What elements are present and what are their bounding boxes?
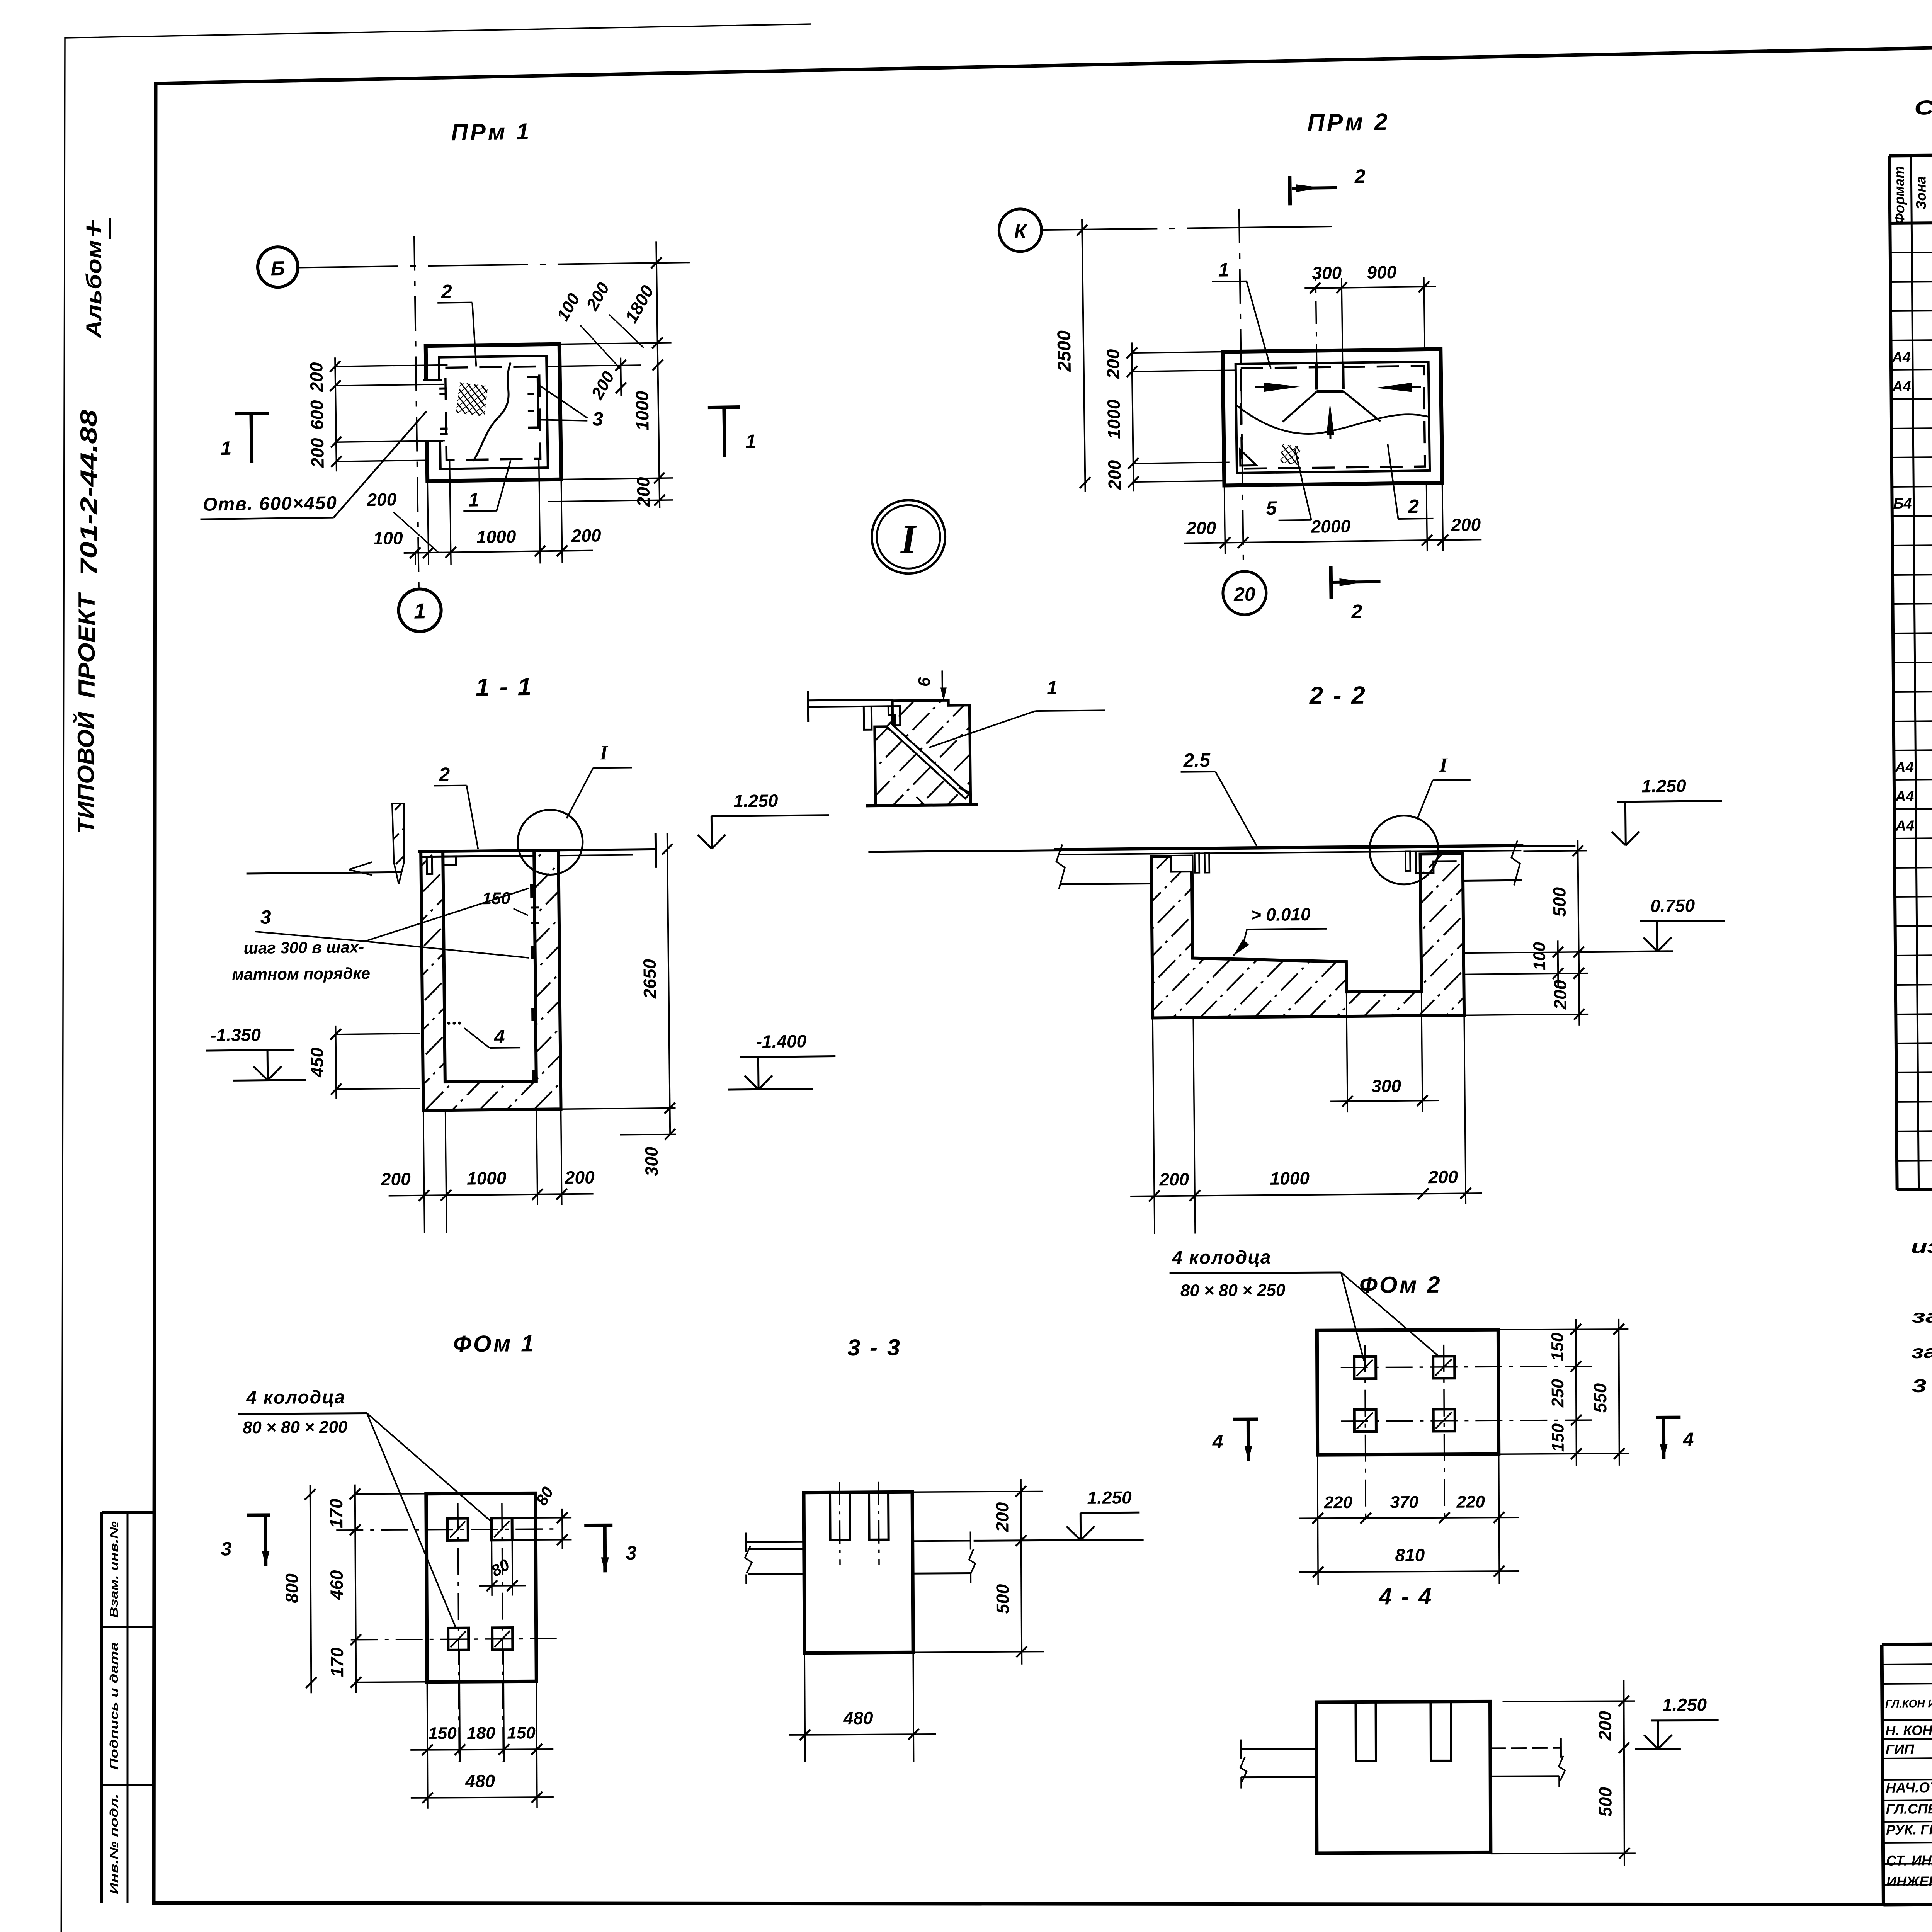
svg-text:170: 170 [326, 1498, 346, 1528]
detail I [806, 498, 1106, 806]
axis Б [257, 247, 298, 287]
svg-text:ГЛ.КОН ИН-ТА: ГЛ.КОН ИН-ТА [1885, 1697, 1932, 1710]
svg-text:1: 1 [221, 437, 232, 459]
specification table [1889, 91, 1932, 1190]
svg-text:ГЛ.СПЕЦ.: ГЛ.СПЕЦ. [1886, 1801, 1932, 1817]
dim 6 [941, 670, 943, 697]
svg-text:-1.400: -1.400 [756, 1031, 806, 1051]
svg-text:А4: А4 [1895, 818, 1914, 834]
svg-text:ПРм 1: ПРм 1 [451, 119, 531, 146]
bottom dim 480 [789, 1734, 936, 1735]
svg-text:200: 200 [992, 1502, 1012, 1532]
svg-text:1.250: 1.250 [1087, 1487, 1132, 1508]
svg-text:А4: А4 [1895, 759, 1914, 776]
svg-text:2: 2 [439, 764, 450, 785]
svg-text:1000: 1000 [1104, 399, 1124, 439]
svg-text:200: 200 [1451, 514, 1481, 535]
floor slab right [1490, 1747, 1561, 1749]
wells [447, 1518, 468, 1540]
svg-text:I: I [900, 516, 918, 561]
svg-text:А4: А4 [1895, 789, 1914, 805]
well axis dash-dot lines [336, 1529, 556, 1530]
pier body 4-4 [1316, 1701, 1490, 1853]
mesh patch [1280, 444, 1301, 465]
svg-text:I: I [599, 742, 609, 764]
svg-text:Взам. инв.№: Взам. инв.№ [108, 1521, 121, 1618]
left wall plate marks [439, 387, 447, 389]
svg-text:1: 1 [468, 489, 480, 510]
svg-text:Отв. 600×450: Отв. 600×450 [203, 493, 338, 515]
svg-text:1000: 1000 [1270, 1168, 1310, 1189]
svg-text:Б: Б [270, 257, 285, 280]
figure section 1-1 [202, 670, 837, 1235]
notes paragraph [1911, 1199, 1932, 1396]
svg-text:1.250: 1.250 [1641, 776, 1686, 796]
svg-text:НАЧ.ОТД.: НАЧ.ОТД. [1886, 1779, 1932, 1796]
svg-text:Альбом I: Альбом I [82, 225, 106, 339]
svg-text:200: 200 [1550, 980, 1570, 1010]
detail circle I on 1-1 [517, 810, 583, 875]
floor slab left [746, 1541, 804, 1543]
svg-text:300: 300 [641, 1146, 662, 1177]
right dims 150/250/150 and 550 [1576, 1319, 1577, 1466]
svg-text:матном порядке: матном порядке [232, 964, 370, 983]
svg-text:4 колодца: 4 колодца [246, 1387, 345, 1408]
figure section 3-3 [744, 1333, 1145, 1762]
embedded plates on walls [530, 884, 536, 898]
figure PRm2 plan [998, 107, 1483, 626]
svg-text:480: 480 [843, 1708, 873, 1728]
right dims 500/100/200 [1578, 840, 1579, 1026]
svg-text:100: 100 [373, 528, 403, 548]
svg-text:800: 800 [282, 1573, 302, 1603]
ground line tails right [558, 849, 656, 850]
svg-text:500: 500 [992, 1584, 1012, 1614]
right dimension lines 1800/1000/200 [656, 241, 660, 508]
svg-text:200: 200 [366, 489, 397, 510]
concrete corner block hatched [874, 700, 971, 806]
svg-text:Н. КОНТР.: Н. КОНТР. [1885, 1722, 1932, 1738]
svg-text:за 2 раза по грунтовке: за 2 раза по грунтовке состава 1:3 ( 1 ч… [1912, 1338, 1932, 1362]
svg-text:ИНЖЕН.: ИНЖЕН. [1886, 1873, 1932, 1889]
svg-text:Формат: Формат [1891, 166, 1907, 224]
svg-text:500: 500 [1549, 887, 1570, 917]
title block [1882, 1639, 1932, 1906]
svg-text:200: 200 [1104, 460, 1125, 490]
pit walls plan PRm2 [1223, 349, 1442, 486]
svg-text:I: I [1439, 754, 1448, 776]
svg-text:3: 3 [626, 1542, 636, 1564]
svg-text:2: 2 [1354, 165, 1366, 187]
svg-text:3: 3 [260, 906, 272, 928]
svg-text:370: 370 [1390, 1493, 1418, 1512]
svg-text:80 × 80 × 250: 80 × 80 × 250 [1180, 1281, 1286, 1300]
svg-text:1: 1 [1047, 677, 1058, 699]
detail title circle I [871, 500, 946, 574]
svg-text:1 - 1: 1 - 1 [476, 673, 533, 701]
svg-text:1000: 1000 [467, 1168, 507, 1189]
svg-text:701-2-44.88: 701-2-44.88 [76, 409, 102, 576]
svg-text:550: 550 [1590, 1383, 1610, 1413]
figure PRm1 plan [195, 116, 759, 634]
figure FOm2 plan [1169, 1245, 1694, 1585]
base line [866, 805, 978, 806]
svg-text:170: 170 [327, 1647, 347, 1677]
svg-text:250: 250 [1548, 1379, 1567, 1408]
svg-text:1000: 1000 [476, 526, 516, 547]
svg-text:ФОм 1: ФОм 1 [453, 1330, 536, 1357]
svg-text:2650: 2650 [639, 959, 660, 999]
svg-text:300: 300 [1371, 1076, 1401, 1096]
axis К [999, 209, 1042, 252]
floor plate [808, 700, 893, 701]
svg-text:4: 4 [1682, 1429, 1694, 1450]
svg-text:шаг 300 в шах-: шаг 300 в шах- [243, 938, 364, 957]
bottom dims 220/370/220 and 810 [1299, 1517, 1519, 1518]
svg-text:220: 220 [1456, 1492, 1485, 1511]
svg-text:150: 150 [1548, 1423, 1567, 1452]
diagonal anchor rod [887, 723, 969, 799]
svg-text:810: 810 [1395, 1545, 1425, 1565]
cover dashed outline [1241, 366, 1425, 469]
opening Отв 600х450 in left wall [422, 380, 443, 441]
margin mini table [100, 1512, 103, 1903]
svg-text:ПРм 2: ПРм 2 [1307, 109, 1390, 136]
svg-text:1.250: 1.250 [1662, 1694, 1707, 1714]
svg-text:Зона: Зона [1913, 176, 1929, 210]
svg-text:200: 200 [565, 1167, 595, 1187]
svg-text:1: 1 [414, 599, 426, 623]
floor slab left [1241, 1748, 1316, 1750]
concrete trough hatched [1151, 854, 1464, 1018]
figure section 2-2 [867, 678, 1728, 1236]
svg-text:150: 150 [428, 1724, 457, 1743]
svg-text:ТИПОВОЙ: ТИПОВОЙ [73, 711, 99, 834]
slope fold lines [1282, 392, 1317, 422]
svg-text:2500: 2500 [1054, 330, 1075, 372]
cover plate over pit [418, 850, 558, 851]
svg-text:460: 460 [327, 1570, 347, 1600]
svg-text:СТ. ИНЖ.: СТ. ИНЖ. [1886, 1852, 1932, 1869]
axis 20 [1223, 571, 1266, 615]
svg-text:200: 200 [1159, 1169, 1189, 1190]
left dims 200/1000/200 and 2500 [1132, 342, 1134, 491]
svg-text:1.250: 1.250 [733, 791, 778, 811]
svg-text:3: 3 [221, 1538, 232, 1560]
svg-text:4 - 4: 4 - 4 [1378, 1583, 1433, 1609]
section flags 4 [1233, 1417, 1258, 1421]
mesh patch [456, 382, 488, 417]
svg-text:К: К [1014, 221, 1028, 243]
bottom dims 150/180/150 and 480 [410, 1749, 553, 1750]
svg-text:200: 200 [306, 362, 327, 393]
svg-text:200: 200 [1186, 518, 1216, 538]
svg-text:2: 2 [1408, 495, 1419, 517]
svg-text:1: 1 [1218, 259, 1229, 281]
svg-text:200: 200 [381, 1169, 411, 1189]
svg-text:6: 6 [915, 677, 934, 687]
top dims 300/900 [1304, 287, 1436, 288]
drain pit funnel [1315, 362, 1318, 390]
svg-text:РУК. ГР.: РУК. ГР. [1886, 1821, 1932, 1838]
svg-text:450: 450 [307, 1047, 327, 1078]
svg-text:150: 150 [507, 1723, 536, 1742]
detail circle I on 2-2 [1369, 815, 1439, 885]
embedded plate bracket right [527, 377, 539, 427]
svg-text:900: 900 [1367, 262, 1397, 282]
svg-text:20: 20 [1233, 583, 1255, 605]
break wavy line [1236, 403, 1429, 435]
svg-text:2: 2 [441, 281, 452, 302]
axis 1 [398, 589, 441, 632]
svg-text:> 0.010: > 0.010 [1251, 904, 1311, 925]
left dimension chain 200/600/200 [335, 357, 337, 471]
svg-text:180: 180 [467, 1724, 495, 1743]
right dim 2650 [667, 833, 670, 1134]
cover plate dashed outline [445, 366, 540, 460]
svg-text:4: 4 [494, 1026, 505, 1048]
svg-text:80 × 80 × 200: 80 × 80 × 200 [243, 1418, 348, 1437]
pit walls plan [426, 344, 561, 481]
svg-text:-1.350: -1.350 [210, 1025, 261, 1045]
svg-text:200: 200 [1595, 1711, 1615, 1741]
svg-text:600: 600 [307, 400, 327, 430]
well slots [830, 1492, 850, 1540]
cover/ground line [1054, 845, 1523, 849]
bottom dimension chain 100/200/1000/200 [404, 551, 593, 553]
svg-text:Б4: Б4 [1893, 496, 1912, 512]
svg-text:5: 5 [1266, 497, 1277, 519]
svg-text:ПРОЕКТ: ПРОЕКТ [74, 592, 100, 698]
svg-text:220: 220 [1323, 1493, 1352, 1512]
svg-text:480: 480 [465, 1771, 495, 1791]
svg-text:1: 1 [745, 430, 757, 452]
svg-text:3 - 3: 3 - 3 [847, 1334, 901, 1361]
dim 450 left [335, 1026, 336, 1099]
svg-text:Подпись и дата: Подпись и дата [108, 1642, 121, 1770]
foundation plan rect [426, 1493, 537, 1682]
figure section 4-4 [1240, 1582, 1719, 1867]
section flags 1-1 on plan [235, 413, 269, 414]
svg-text:200: 200 [307, 438, 328, 468]
svg-text:2000: 2000 [1310, 516, 1350, 536]
figure FOm1 plan [220, 1330, 638, 1810]
bottom dims 200/1000/200 [389, 1194, 594, 1196]
section mark 2 top [1288, 176, 1292, 205]
bottom dims 200/1000/200 [1130, 1193, 1482, 1196]
right dim 300 [665, 1129, 675, 1139]
svg-text:200: 200 [1103, 349, 1123, 379]
concrete U-section hatched [421, 850, 561, 1110]
svg-text:А4: А4 [1891, 349, 1911, 366]
svg-text:100: 100 [1530, 942, 1549, 970]
svg-text:2.5: 2.5 [1183, 749, 1211, 771]
svg-text:0.750: 0.750 [1650, 895, 1695, 916]
bottom dims 200/2000/200 [1184, 539, 1481, 543]
svg-text:200: 200 [633, 477, 653, 507]
dim 300 sump [1330, 1100, 1439, 1101]
left dims 170/460/170 and 800 [355, 1485, 356, 1693]
svg-text:3: 3 [592, 408, 604, 430]
svg-text:500: 500 [1595, 1787, 1615, 1816]
floor slab right [913, 1540, 971, 1542]
svg-text:ГИП: ГИП [1886, 1741, 1915, 1757]
wells [1354, 1357, 1376, 1379]
svg-text:3 части бензина) по Г: 3 части бензина) по ГОСТ 6617-76. [1912, 1373, 1932, 1396]
dim 80 top right [561, 1509, 563, 1549]
foundation plan rect FOm2 [1317, 1330, 1498, 1455]
ground line left with grade stake [247, 872, 401, 874]
svg-text:4 колодца: 4 колодца [1172, 1247, 1271, 1268]
svg-text:ФОм 2: ФОм 2 [1359, 1272, 1442, 1298]
svg-text:А4: А4 [1892, 379, 1911, 395]
svg-text:Инв.№ подл.: Инв.№ подл. [108, 1794, 121, 1894]
break wavy line [472, 362, 512, 461]
slope arrows [1255, 387, 1286, 387]
svg-text:2: 2 [1351, 600, 1362, 622]
svg-text:200: 200 [1428, 1167, 1458, 1187]
dim 80 below TR well [479, 1585, 526, 1587]
svg-text:2 - 2: 2 - 2 [1309, 681, 1367, 709]
corner mark [1240, 449, 1256, 466]
svg-text:4: 4 [1212, 1430, 1223, 1452]
pier body [804, 1492, 913, 1653]
right dims 200/500 [1021, 1479, 1022, 1665]
right dims 200/500 [1624, 1680, 1624, 1866]
svg-text:1000: 1000 [632, 391, 652, 430]
well slots [1355, 1702, 1376, 1761]
well axis dash-dot lines [1341, 1366, 1592, 1367]
section mark 2 bottom [1331, 566, 1331, 599]
svg-text:300: 300 [1312, 263, 1342, 283]
section flags 3 [247, 1513, 270, 1517]
anchor tee [864, 706, 872, 730]
svg-text:150: 150 [1548, 1332, 1567, 1361]
svg-text:200: 200 [571, 525, 601, 546]
